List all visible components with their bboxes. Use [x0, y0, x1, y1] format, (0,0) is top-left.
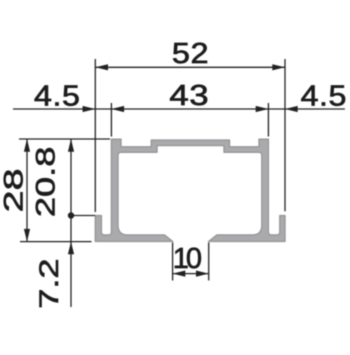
extension line 10 right: [208, 242, 210, 280]
dimension line 10: [173, 273, 209, 275]
dimension line 20.8 with 7.2 below: [70, 139, 72, 307]
extension line 43 right: [267, 103, 269, 137]
extension line 52 left: [94, 59, 96, 212]
svg-text:10: 10: [173, 243, 201, 275]
svg-text:43: 43: [169, 79, 209, 112]
extension line 10 left: [172, 242, 174, 280]
junction dot: [68, 212, 74, 218]
svg-text:4.5: 4.5: [301, 80, 347, 112]
dimension line 43 with 4.5 tails: [13, 108, 345, 110]
top extension line for heights: [19, 138, 110, 140]
svg-text:28: 28: [0, 168, 29, 212]
svg-text:20.8: 20.8: [30, 147, 60, 218]
dimension line 28: [26, 139, 28, 242]
dimension line 52: [95, 66, 285, 68]
extension line 43 left: [110, 103, 112, 137]
bottom extension line for heights: [20, 241, 92, 243]
svg-text:7.2: 7.2: [33, 258, 63, 308]
rail profile cross-section: [95, 139, 285, 241]
svg-text:4.5: 4.5: [34, 80, 80, 112]
extension line 52 right: [284, 59, 286, 211]
leader from dot to lip: [71, 215, 95, 217]
svg-text:52: 52: [172, 37, 209, 70]
